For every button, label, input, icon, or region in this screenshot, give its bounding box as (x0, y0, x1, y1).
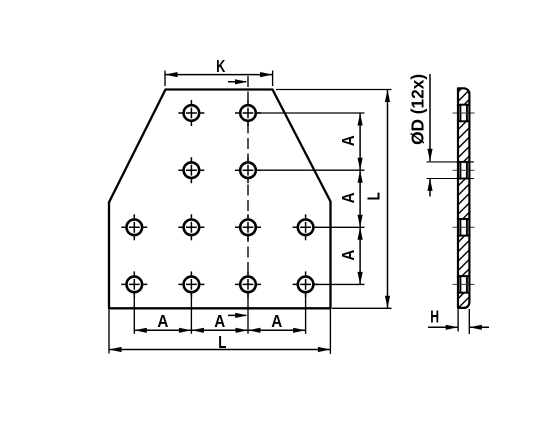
svg-text:H: H (430, 307, 439, 327)
svg-text:A: A (338, 192, 358, 203)
svg-text:L: L (218, 332, 226, 352)
svg-text:A: A (271, 311, 282, 331)
svg-text:A: A (338, 135, 358, 146)
svg-text:L: L (363, 192, 383, 200)
svg-text:A: A (214, 311, 225, 331)
svg-text:ØD (12x): ØD (12x) (407, 74, 427, 145)
svg-text:K: K (216, 56, 225, 76)
svg-text:A: A (157, 311, 168, 331)
svg-text:A: A (338, 249, 358, 260)
